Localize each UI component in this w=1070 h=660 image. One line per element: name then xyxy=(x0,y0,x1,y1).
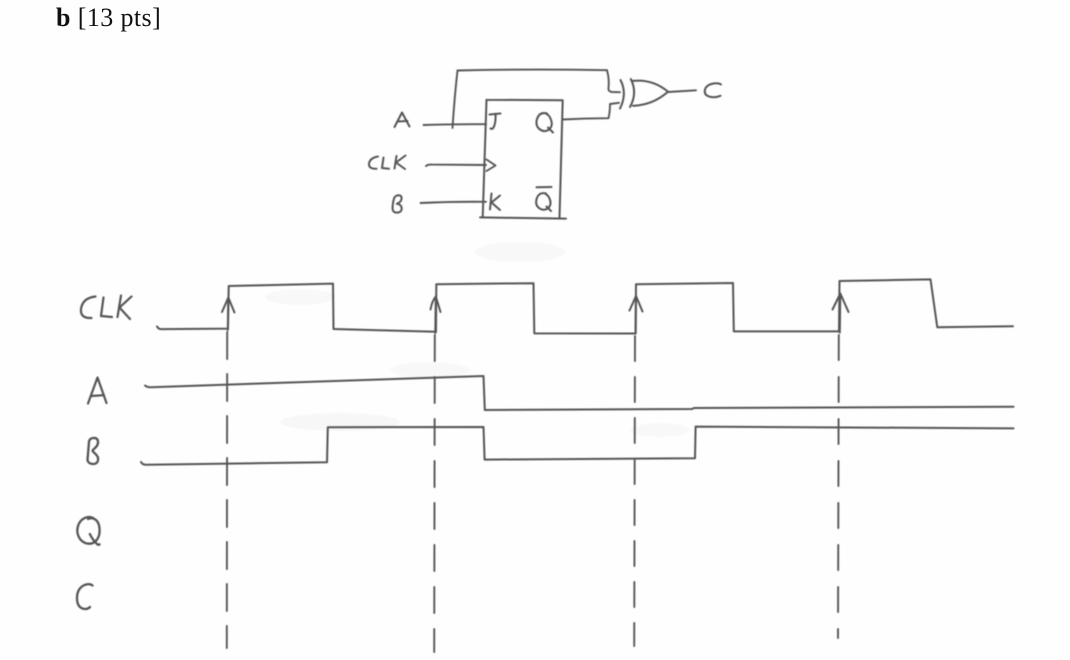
wire Q output to XOR xyxy=(563,103,619,120)
label C (circuit output) xyxy=(705,83,721,97)
label B (timing row) xyxy=(88,438,99,464)
pin label K xyxy=(490,194,500,211)
dashed line edge 4 xyxy=(837,335,840,638)
label B (circuit input) xyxy=(393,195,402,212)
dashed line edge 2 xyxy=(433,335,436,652)
wire XOR output xyxy=(668,90,696,92)
wire feedback vertical branch xyxy=(453,71,458,129)
svg-text:b [13 pts]: b [13 pts] xyxy=(56,3,161,32)
XOR gate U2 input arc xyxy=(620,80,624,109)
XOR gate U2 body xyxy=(630,79,668,107)
wire B input xyxy=(421,202,487,203)
B waveform xyxy=(141,427,1014,465)
clock edge arrow 4 xyxy=(833,294,849,333)
pin label J xyxy=(490,114,501,129)
wire A input xyxy=(424,123,487,126)
wire feedback top horizontal xyxy=(458,69,608,72)
clock edge arrow 3 xyxy=(630,296,643,334)
pin label Qbar xyxy=(536,187,551,211)
A waveform xyxy=(145,376,1014,410)
label CLK (timing row) xyxy=(81,296,132,320)
flip-flop U1 box xyxy=(480,100,566,219)
label A (circuit input) xyxy=(395,113,410,128)
CLK waveform xyxy=(157,279,1013,333)
label A (timing row) xyxy=(88,378,107,404)
clock edge arrow 2 xyxy=(431,297,441,334)
label C (timing row) xyxy=(77,584,93,609)
wire CLK input xyxy=(426,165,486,166)
dashed line edge 3 xyxy=(633,336,636,646)
clock triangle pin xyxy=(487,160,496,172)
pin label Q xyxy=(536,113,553,132)
label Q (timing row) xyxy=(77,517,99,545)
header text "b [13 pts]" xyxy=(56,3,161,32)
wire feedback drop to XOR xyxy=(607,70,620,92)
clock edge arrow 1 xyxy=(222,298,235,331)
dashed line edge 1 xyxy=(226,332,228,648)
label CLK (circuit input) xyxy=(369,156,406,170)
